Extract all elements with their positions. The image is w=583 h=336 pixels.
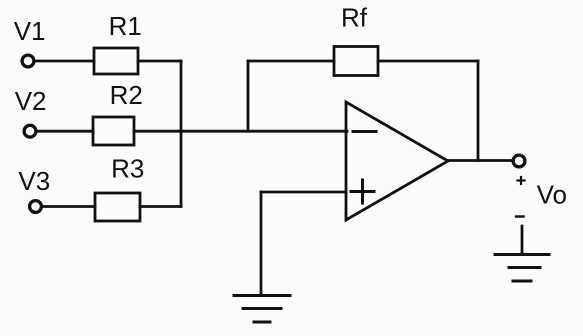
- svg-text:Rf: Rf: [341, 3, 368, 33]
- ground (output reference): [495, 255, 549, 282]
- svg-text:Vo: Vo: [537, 179, 567, 209]
- wire feedback tap vertical: [247, 61, 250, 131]
- op-amp U1: [346, 102, 448, 220]
- wire non-inverting input: [261, 191, 346, 194]
- wire V1 terminal to R1: [35, 60, 94, 63]
- wire Vo ground stub: [521, 226, 524, 254]
- wire Rf to right corner: [378, 60, 478, 63]
- wire V2 terminal to R2: [37, 130, 93, 133]
- wire feedback right vertical: [477, 61, 480, 161]
- ground (op-amp + input): [234, 296, 290, 323]
- output polarity plus mark: [518, 177, 525, 184]
- wire op-amp output: [448, 159, 511, 162]
- wire non-inverting to ground: [260, 192, 263, 295]
- wire R1 to bus: [138, 60, 181, 63]
- node V2 terminal: [24, 125, 36, 137]
- node Vo terminal: [513, 155, 525, 167]
- output polarity minus mark: [516, 215, 524, 217]
- node V3 terminal: [30, 201, 42, 213]
- wire feedback top left to Rf: [248, 60, 334, 63]
- wire V3 terminal to R3: [43, 205, 95, 208]
- svg-text:V2: V2: [15, 86, 47, 116]
- op-amp plus pin symbol: [351, 180, 374, 203]
- svg-text:R2: R2: [110, 80, 143, 110]
- resistor R2: [93, 117, 134, 145]
- wire R3 to bus: [140, 205, 181, 208]
- resistor R3: [95, 193, 140, 221]
- svg-text:V3: V3: [18, 166, 50, 196]
- svg-text:V1: V1: [14, 16, 46, 46]
- wire R2 to op-amp inverting input: [134, 130, 347, 133]
- svg-text:R3: R3: [111, 154, 144, 184]
- op-amp minus pin symbol: [353, 130, 376, 133]
- resistor R1: [94, 48, 138, 74]
- wire summing bus vertical: [180, 61, 183, 207]
- svg-text:R1: R1: [109, 11, 142, 41]
- node V1 terminal: [22, 55, 34, 67]
- resistor Rf: [334, 47, 378, 76]
